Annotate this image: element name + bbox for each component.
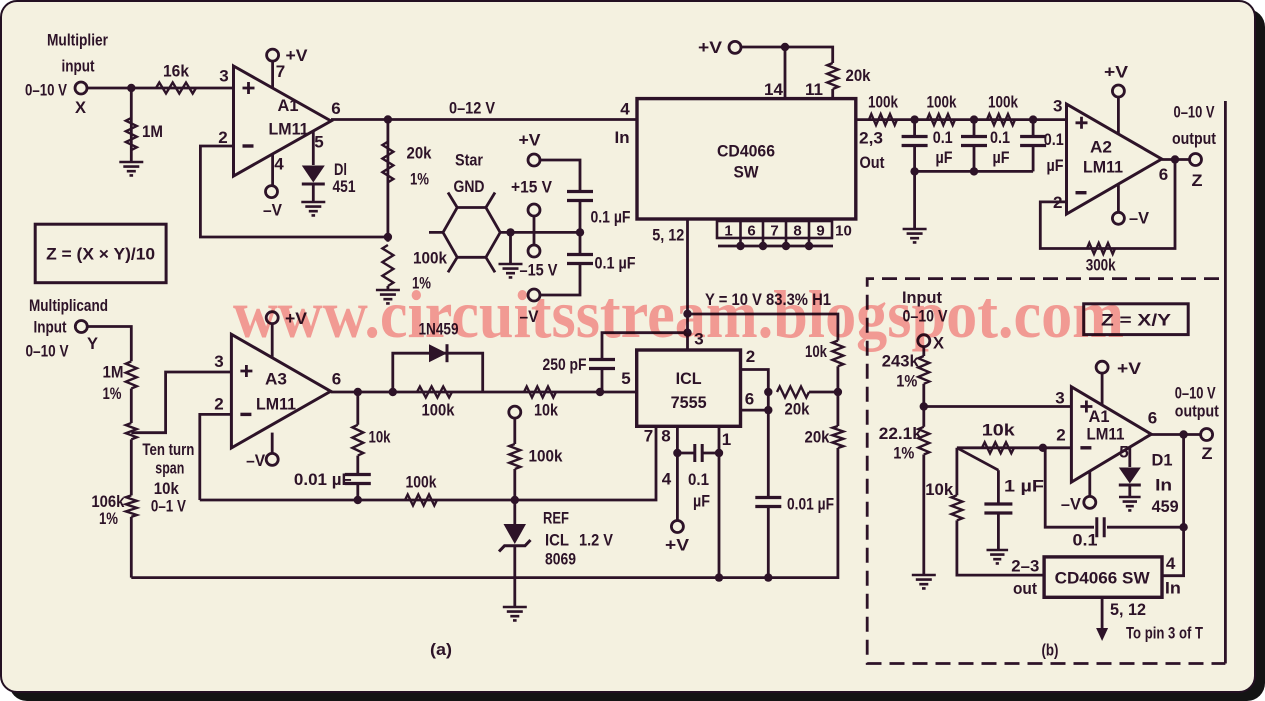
svg-text:Out: Out xyxy=(860,153,885,172)
svg-text:3: 3 xyxy=(1053,97,1062,116)
node 5,12 lower xyxy=(683,329,691,337)
bracket dot 4 xyxy=(805,242,813,250)
capacitor 0.1uF fb b xyxy=(1097,517,1104,537)
resistor 20k 1% xyxy=(382,142,393,183)
node pin1 cap xyxy=(715,449,723,457)
terminal +V star xyxy=(528,154,540,166)
wire 20k low to bus xyxy=(131,448,838,578)
svg-text:Input: Input xyxy=(34,318,67,337)
wire 243k to node xyxy=(922,384,925,427)
resistor 20k low xyxy=(832,426,843,448)
svg-text:+V: +V xyxy=(286,46,309,65)
svg-text:10k: 10k xyxy=(154,479,179,498)
svg-text:1%: 1% xyxy=(410,170,429,189)
svg-text:A3: A3 xyxy=(265,370,287,389)
svg-text:2: 2 xyxy=(218,128,227,147)
wire ICL pin8 xyxy=(676,426,679,520)
wire 100k ref to node xyxy=(513,469,516,500)
wire A3 feedback xyxy=(200,414,232,500)
resistor 20k mid xyxy=(777,387,809,398)
svg-text:0.1: 0.1 xyxy=(688,470,709,489)
terminal Z output A2 xyxy=(1190,154,1202,166)
svg-text:0–10 V: 0–10 V xyxy=(26,342,70,361)
resistor 106k xyxy=(126,495,137,516)
svg-text:A2: A2 xyxy=(1090,138,1112,157)
wire A3 +V xyxy=(271,324,274,358)
ground below 100k xyxy=(376,290,400,303)
op-amp A2 xyxy=(1067,104,1162,214)
svg-text:A1: A1 xyxy=(1089,407,1110,426)
wire 250pF low xyxy=(601,368,604,392)
svg-text:+15 V: +15 V xyxy=(511,178,553,197)
wire ICL pin1 to bus xyxy=(718,426,721,577)
zener REF ICL8069 xyxy=(504,524,527,544)
svg-text:A1: A1 xyxy=(278,96,299,115)
ground zener xyxy=(503,607,527,620)
svg-text:D1: D1 xyxy=(1152,451,1173,470)
svg-text:1.2 V: 1.2 V xyxy=(579,531,614,550)
node f2 xyxy=(970,115,978,123)
wire 20k to pin11 xyxy=(831,89,834,99)
node filter bus 2 xyxy=(970,167,978,175)
wire 10k t to node xyxy=(837,366,840,392)
resistor 10k b-h xyxy=(982,442,1014,453)
wire A2 feedback xyxy=(1040,160,1175,249)
resistor 300k xyxy=(1087,243,1115,254)
svg-text:250 pF: 250 pF xyxy=(543,355,587,374)
wire 1uF to ground xyxy=(997,513,1000,549)
wire X b down xyxy=(922,347,925,356)
op-amp A1 (b) xyxy=(1071,387,1151,482)
svg-text:0.01 µF: 0.01 µF xyxy=(294,470,352,489)
wire A1b +V xyxy=(1101,373,1104,405)
wire 1M to ground xyxy=(130,88,133,162)
svg-text:10k: 10k xyxy=(369,428,391,447)
node A1 output xyxy=(384,115,392,123)
svg-text:0–1 V: 0–1 V xyxy=(151,497,187,516)
wire star gnd stub xyxy=(509,232,512,264)
ground star xyxy=(499,264,523,277)
wire 10k b-v to box xyxy=(957,520,1044,575)
svg-text:10k: 10k xyxy=(534,401,558,420)
svg-text:output: output xyxy=(1175,402,1219,421)
svg-text:100k: 100k xyxy=(529,447,563,466)
wire A1 pin5 to diode xyxy=(312,131,315,165)
wire 22.1k to ground xyxy=(922,455,925,575)
svg-text:3: 3 xyxy=(219,67,228,86)
IC CD4066 SW box xyxy=(637,99,856,219)
svg-text:out: out xyxy=(1013,579,1037,598)
terminal Z b xyxy=(1201,429,1213,441)
node A1 feedback junction xyxy=(384,233,392,241)
svg-text:+V: +V xyxy=(519,131,542,150)
svg-text:1: 1 xyxy=(722,430,731,449)
wire A1 output to CD4066 In xyxy=(331,118,637,121)
node cap A3 bus xyxy=(354,496,362,504)
node A2 output xyxy=(1171,155,1179,163)
svg-text:Multiplicand: Multiplicand xyxy=(29,296,108,315)
terminal -V star xyxy=(528,289,540,301)
svg-text:Z: Z xyxy=(1192,171,1203,190)
svg-text:20k: 20k xyxy=(846,66,871,85)
svg-text:100k: 100k xyxy=(988,93,1018,112)
svg-text:0–10 V: 0–10 V xyxy=(1174,103,1215,122)
svg-text:7: 7 xyxy=(770,223,778,240)
node star caps xyxy=(576,228,584,236)
wire A1 feedback xyxy=(200,146,388,237)
node A1b output xyxy=(1179,430,1187,438)
svg-text:20k: 20k xyxy=(805,428,830,447)
node f3 xyxy=(1029,115,1037,123)
resistor 100k f3 xyxy=(987,114,1015,125)
wire A1 pin7 to +V xyxy=(271,61,274,88)
wire 0.01uF right branch xyxy=(767,410,770,498)
capacitor 0.01uF A3 xyxy=(345,475,371,484)
terminal +15V xyxy=(528,204,540,216)
svg-text:–V: –V xyxy=(246,451,266,470)
svg-text:11: 11 xyxy=(805,80,823,99)
node filter bus 1 xyxy=(910,167,918,175)
wire CD4066 pins 5,12 down to ICL pin3 xyxy=(686,219,689,350)
ground D1 xyxy=(1119,497,1141,510)
svg-text:In: In xyxy=(1155,476,1172,495)
svg-text:8: 8 xyxy=(661,427,670,446)
svg-text:+V: +V xyxy=(665,536,690,555)
resistor 20k pull xyxy=(827,63,838,89)
wire ICL pin2 xyxy=(741,370,769,411)
resistor 10k b-v xyxy=(951,495,962,520)
svg-text:7: 7 xyxy=(644,427,653,446)
capacitor 0.1uF timer xyxy=(695,444,702,462)
wire 250pF branch xyxy=(602,333,688,360)
terminal +V A2 xyxy=(1112,85,1124,97)
wire +15V to star xyxy=(533,216,536,246)
wire ref adj to 100k xyxy=(513,418,516,444)
svg-text:+V: +V xyxy=(1104,63,1129,82)
svg-text:1%: 1% xyxy=(99,509,118,528)
node fb b xyxy=(1179,523,1187,531)
wire -V to cap 0.1 xyxy=(540,263,580,295)
wire 100k to ground xyxy=(386,286,389,290)
svg-text:2–3: 2–3 xyxy=(1011,557,1039,576)
svg-text:10k: 10k xyxy=(925,480,954,499)
node 250p bottom xyxy=(596,388,604,396)
svg-text:µF: µF xyxy=(993,148,1010,167)
node A3 out xyxy=(354,388,362,396)
wire cap f2 low xyxy=(973,145,976,171)
svg-text:0.1: 0.1 xyxy=(1073,531,1098,550)
svg-text:100k: 100k xyxy=(413,249,447,268)
potentiometer ten-turn 10k xyxy=(126,423,137,439)
svg-text:6: 6 xyxy=(1159,165,1168,184)
resistor 1M xyxy=(126,118,137,150)
svg-text:ICL: ICL xyxy=(545,531,569,550)
node pin2-20k xyxy=(764,388,772,396)
svg-text:9: 9 xyxy=(816,223,824,240)
wire Y input chain xyxy=(87,327,131,362)
wire A3 out row xyxy=(331,391,637,394)
svg-text:LM11: LM11 xyxy=(1083,158,1123,177)
section b dashed border xyxy=(867,279,1225,664)
svg-text:0–10 V: 0–10 V xyxy=(25,81,68,100)
svg-text:Z: Z xyxy=(1202,444,1213,463)
wire pin14 xyxy=(784,47,787,99)
node +V branch xyxy=(781,43,789,51)
wire 20k mid to rail xyxy=(809,391,838,394)
svg-text:6: 6 xyxy=(331,99,340,118)
wire cap upper to star node xyxy=(579,200,582,232)
node right rail mid xyxy=(834,388,842,396)
ground X divider xyxy=(912,575,936,588)
capacitor 0.1uF lower xyxy=(567,255,593,264)
wire A1b -V xyxy=(1088,471,1091,496)
svg-text:Multiplier: Multiplier xyxy=(47,31,108,50)
terminal -V A3 xyxy=(266,453,278,465)
svg-text:100k: 100k xyxy=(422,401,455,420)
wire cap f1 xyxy=(913,120,916,137)
wire A2 output xyxy=(1162,158,1190,161)
node pin8 cap xyxy=(673,449,681,457)
svg-text:4: 4 xyxy=(274,155,284,174)
svg-text:0–10 V: 0–10 V xyxy=(1175,384,1216,403)
svg-text:To pin 3 of T: To pin 3 of T xyxy=(1126,624,1203,643)
terminal +V A1b xyxy=(1096,361,1108,373)
wire A1b pin5 xyxy=(1128,448,1131,468)
svg-text:output: output xyxy=(1172,129,1216,148)
wire cap A3 to bus xyxy=(356,483,359,500)
wire ICL pin7 down-left bus xyxy=(200,426,656,500)
capacitor 0.01uF right xyxy=(755,498,781,507)
svg-text:6: 6 xyxy=(747,223,755,240)
terminal +V A1 xyxy=(267,49,279,61)
svg-text:10: 10 xyxy=(835,223,852,240)
svg-text:In: In xyxy=(615,128,630,147)
svg-text:6: 6 xyxy=(745,390,754,409)
svg-text:ICL: ICL xyxy=(676,369,702,388)
terminal X (b) xyxy=(918,335,930,347)
svg-text:7: 7 xyxy=(276,62,285,81)
capacitor 0.1uF f1 xyxy=(902,137,928,146)
svg-text:243k: 243k xyxy=(882,352,920,371)
wire A2 +V xyxy=(1117,97,1120,134)
wire pin2 to 10k xyxy=(957,446,1072,449)
svg-text:0–12 V: 0–12 V xyxy=(449,99,496,118)
node pin2 b xyxy=(1039,444,1047,452)
resistor 100k loop xyxy=(417,387,452,398)
node star gnd tap xyxy=(506,228,514,236)
svg-text:–V: –V xyxy=(1129,209,1150,228)
svg-text:5, 12: 5, 12 xyxy=(652,226,684,245)
bracket dot 3 xyxy=(782,242,790,250)
resistor 10k mid xyxy=(524,387,556,398)
wire A2 -V xyxy=(1117,184,1120,213)
svg-text:µF: µF xyxy=(693,492,710,511)
wire Y node to 10k xyxy=(688,314,838,341)
terminal -V A1 xyxy=(266,186,278,198)
wiper diagonal b xyxy=(957,448,999,470)
node 0.01 bus xyxy=(764,573,772,581)
node diode loop left xyxy=(389,388,397,396)
star ground hexagon xyxy=(443,208,500,258)
ground below 1M xyxy=(119,162,143,175)
svg-text:LM11: LM11 xyxy=(256,395,296,414)
wire pot wiper to A3 pin3 xyxy=(131,372,231,433)
svg-text:1%: 1% xyxy=(103,384,122,403)
wire node to zener xyxy=(513,500,516,524)
wire 1M to pot xyxy=(130,389,133,424)
svg-text:span: span xyxy=(155,459,184,478)
capacitor 0.1uF f2 xyxy=(961,137,987,146)
svg-text:20k: 20k xyxy=(785,400,810,419)
svg-text:22.1k: 22.1k xyxy=(879,424,923,443)
svg-text:8069: 8069 xyxy=(545,550,576,569)
svg-text:6: 6 xyxy=(332,370,341,389)
terminal +V CD4066 xyxy=(729,41,741,53)
diode Dl 451 xyxy=(302,166,325,183)
section b right rail xyxy=(1224,101,1227,664)
svg-text:0.1: 0.1 xyxy=(990,128,1010,147)
wire D1 to ground xyxy=(1128,485,1131,497)
node f1 xyxy=(910,115,918,123)
svg-text:7555: 7555 xyxy=(671,393,707,412)
CD4066 bottom pin boxes xyxy=(717,221,832,238)
svg-text:LM11: LM11 xyxy=(269,120,309,139)
wire cap timer right xyxy=(703,452,720,455)
svg-text:20k: 20k xyxy=(407,144,432,163)
svg-text:SW: SW xyxy=(734,163,760,182)
svg-text:0.01 µF: 0.01 µF xyxy=(787,495,834,514)
svg-text:In: In xyxy=(1165,579,1181,598)
op-amp A1 xyxy=(234,66,332,176)
svg-text:5: 5 xyxy=(621,369,630,388)
wire +V to pin14 and 20k xyxy=(741,47,833,63)
svg-text:1 µF: 1 µF xyxy=(1004,477,1044,496)
terminal +V A3 xyxy=(266,312,278,324)
wire 10k b-v chain xyxy=(956,448,959,496)
svg-text:4: 4 xyxy=(620,100,630,119)
node X divider xyxy=(920,402,928,410)
svg-text:5: 5 xyxy=(314,133,323,152)
svg-text:1%: 1% xyxy=(893,444,914,463)
svg-text:16k: 16k xyxy=(163,62,189,81)
bracket under pin boxes xyxy=(718,245,833,248)
ground filter xyxy=(903,229,927,242)
bracket stubs xyxy=(741,238,810,246)
svg-text:REF: REF xyxy=(543,509,569,528)
resistor 100k 1% xyxy=(382,245,393,286)
svg-text:5: 5 xyxy=(1119,443,1128,462)
svg-text:www.circuitsstream.blogspot.co: www.circuitsstream.blogspot.com xyxy=(233,276,1124,352)
resistor 22.1k xyxy=(918,427,929,455)
wire CD4066 out to A2 xyxy=(856,118,1067,121)
svg-text:6: 6 xyxy=(1148,409,1157,428)
svg-text:100k: 100k xyxy=(927,93,957,112)
wire cap f2 xyxy=(973,120,976,137)
node pin6 xyxy=(764,406,772,414)
IC CD4066 SW box (b) xyxy=(1044,557,1162,597)
svg-text:Y: Y xyxy=(87,334,99,353)
capacitor 1uF xyxy=(984,504,1012,513)
svg-text:1M: 1M xyxy=(103,363,124,382)
wire 106k to bus xyxy=(130,517,133,578)
svg-text:0.1: 0.1 xyxy=(1044,130,1064,149)
formula box X/Y xyxy=(1084,304,1189,335)
terminal -V A1b xyxy=(1084,496,1096,508)
arrow to pin 3 of T xyxy=(1101,597,1104,630)
wire filter bus to ground xyxy=(913,171,916,229)
wire right rail down xyxy=(837,392,840,426)
svg-text:2,3: 2,3 xyxy=(859,129,883,148)
svg-text:+V: +V xyxy=(698,38,723,57)
svg-text:CD4066 SW: CD4066 SW xyxy=(1055,569,1151,588)
wire IN459 loop xyxy=(393,353,483,392)
IC ICL7555 box xyxy=(637,350,741,426)
svg-text:CD4066: CD4066 xyxy=(717,142,775,161)
terminal ref adj xyxy=(509,406,521,418)
resistor 10k t xyxy=(832,341,843,367)
svg-text:14: 14 xyxy=(764,80,783,99)
svg-text:Ten turn: Ten turn xyxy=(142,440,194,459)
svg-text:LM11: LM11 xyxy=(1087,425,1125,444)
svg-text:451: 451 xyxy=(333,177,356,196)
resistor 10k fb xyxy=(352,425,363,456)
svg-text:3: 3 xyxy=(1055,389,1064,408)
svg-text:+V: +V xyxy=(1117,359,1142,378)
resistor 243k xyxy=(918,356,929,384)
svg-text:µF: µF xyxy=(1047,156,1064,175)
svg-text:2: 2 xyxy=(1056,426,1065,445)
wire cap f3 low xyxy=(1032,145,1035,171)
terminal -15V xyxy=(528,245,540,257)
svg-text:(a): (a) xyxy=(430,640,452,659)
wire zener to ground xyxy=(513,546,516,607)
svg-text:µF: µF xyxy=(936,148,953,167)
node 5,12 upper xyxy=(683,310,691,318)
terminal X input xyxy=(75,82,87,94)
svg-text:GND: GND xyxy=(454,177,485,196)
wire 0.01uF right low xyxy=(767,506,770,578)
resistor 100k bus xyxy=(405,495,437,506)
svg-text:2: 2 xyxy=(214,395,223,414)
wire A1 pin4 to -V xyxy=(271,154,274,186)
resistor 100k f1 xyxy=(869,114,897,125)
svg-text:0.1 µF: 0.1 µF xyxy=(595,254,636,273)
wire A1b output xyxy=(1151,433,1200,436)
svg-text:–V: –V xyxy=(263,201,283,220)
wire star node xyxy=(500,231,580,234)
wire pot to 106k xyxy=(130,439,133,495)
svg-text:0.1 µF: 0.1 µF xyxy=(591,208,631,227)
capacitor 0.1uF upper xyxy=(567,192,593,201)
wire A3 10k down xyxy=(356,392,359,425)
svg-text:300k: 300k xyxy=(1086,256,1116,275)
svg-text:459: 459 xyxy=(1152,497,1179,516)
svg-text:input: input xyxy=(62,57,95,76)
wire 0.1 fb left xyxy=(1043,448,1094,527)
capacitor 0.1uF f3 xyxy=(1020,137,1046,146)
svg-text:5, 12: 5, 12 xyxy=(1110,600,1146,619)
terminal +V ICL xyxy=(671,521,683,533)
formula box (X x Y)/10 xyxy=(35,224,166,283)
svg-text:1%: 1% xyxy=(896,372,917,391)
capacitor 250pF xyxy=(589,360,615,369)
wire +V to cap 0.1 xyxy=(540,160,580,192)
wire out to pin4 In xyxy=(1162,435,1184,576)
resistor 1M 1% xyxy=(126,361,137,388)
svg-text:100k: 100k xyxy=(406,473,437,492)
ground below Dl 451 xyxy=(301,202,325,215)
wire cap timer left xyxy=(677,452,694,455)
